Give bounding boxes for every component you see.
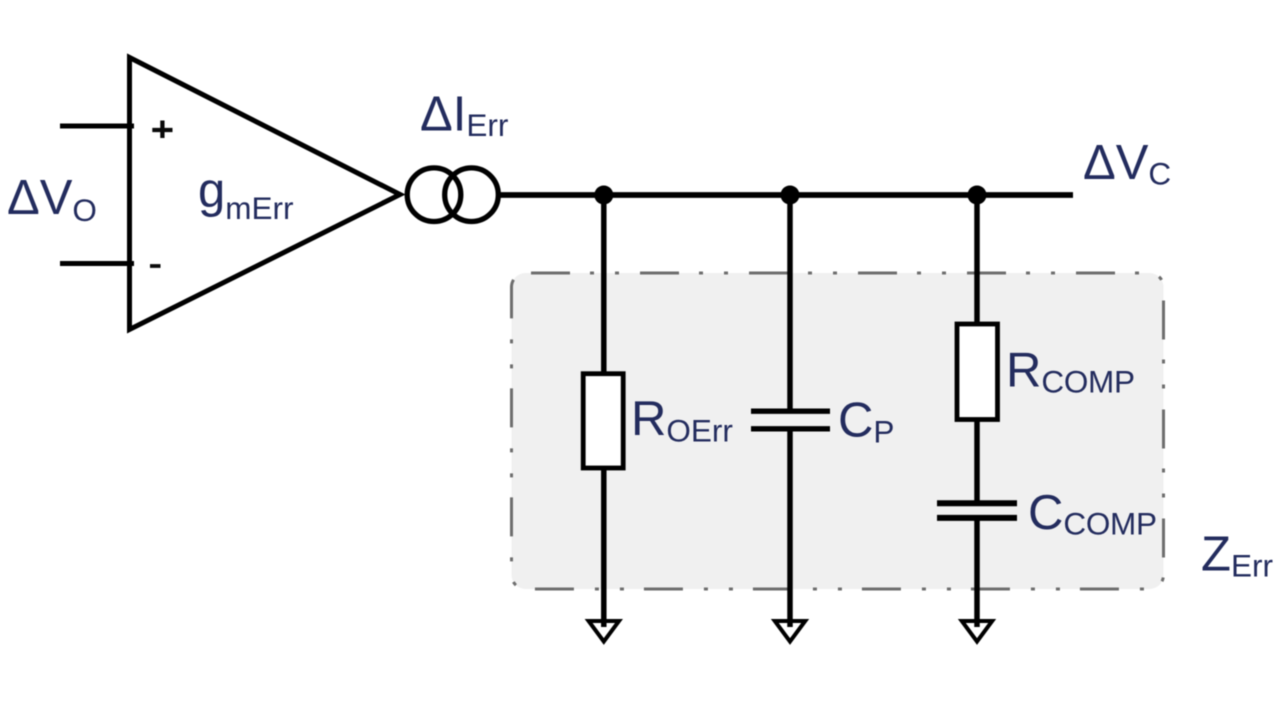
wire branch 1 vertical	[601, 195, 607, 627]
resistor ROErr	[583, 374, 623, 468]
wire branch 3 vertical lower	[974, 518, 980, 627]
ground 1	[589, 621, 619, 642]
current source circles dIerr	[407, 168, 461, 222]
op-amp U1 gmErr	[130, 58, 401, 330]
wire branch 2 vertical upper	[787, 195, 793, 411]
wire main horizontal	[499, 192, 1073, 198]
Zerr dash-dot box	[512, 273, 1164, 589]
wire branch 3 vertical upper	[974, 195, 980, 503]
plus sign	[152, 121, 172, 139]
wire input -	[60, 261, 134, 266]
wire input +	[60, 124, 134, 129]
junction node 1	[594, 186, 613, 205]
junction node 3	[968, 186, 987, 205]
capacitor CCOMP	[937, 503, 1017, 518]
minus sign	[150, 264, 161, 268]
ground 3	[962, 621, 992, 642]
resistor RCOMP	[957, 324, 998, 420]
ground 2	[775, 621, 805, 642]
wire branch 2 vertical lower	[787, 429, 793, 627]
junction node 2	[781, 186, 800, 205]
capacitor CP	[751, 411, 830, 429]
